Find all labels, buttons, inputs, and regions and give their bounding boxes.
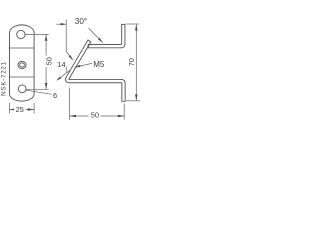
arrowhead dim50 left bottom <box>45 83 48 89</box>
dim 25: extension line left <box>9 103 11 114</box>
text mask dim 50 bottom <box>89 111 101 120</box>
arrowhead dim14 upper (to slant face) <box>69 55 73 60</box>
side view lower profile: slant tab, bottom run, mounting plate <box>66 40 126 101</box>
label M5: leader line <box>75 63 92 67</box>
arrowhead dim14 lower (away from slant face) <box>56 77 61 81</box>
svg-text:25: 25 <box>16 105 24 114</box>
svg-text:50: 50 <box>91 111 99 120</box>
arrowhead 30deg at reference line <box>61 23 67 25</box>
svg-text:70: 70 <box>127 58 136 66</box>
text mask dim 25 <box>14 105 25 114</box>
bend line lower <box>10 76 35 78</box>
dim 50 bottom: dimension line <box>70 115 125 117</box>
svg-text:30°: 30° <box>75 17 87 26</box>
dim 70: dimension line <box>135 24 137 101</box>
leader for hole dia 6 <box>26 90 51 94</box>
dim 25: extension line right <box>33 103 35 114</box>
arrowhead dim70 bottom <box>135 94 138 100</box>
dim 50 left: extension line from bottom hole <box>25 88 48 90</box>
dim 30deg: vertical reference line <box>65 19 67 51</box>
arrowhead dim50 left top <box>45 35 48 41</box>
dim 25: dimension line <box>10 109 35 111</box>
dim 70: extension line bottom <box>126 100 140 102</box>
dim 50 bottom: extension line left <box>69 88 71 120</box>
side view upper profile: top run and hook <box>88 24 125 47</box>
arrowhead dim70 top <box>135 24 138 30</box>
arrowhead M5 leader <box>75 65 81 67</box>
text mask dim 50 left <box>45 56 54 67</box>
dim 50 left: extension line from top hole <box>25 34 48 36</box>
bend line upper <box>10 47 35 49</box>
dim 50 left: dimension line <box>45 35 47 90</box>
svg-text:6: 6 <box>53 91 57 100</box>
dim 30deg: vertical reference line lower segment <box>65 67 67 73</box>
svg-text:NSK-7221: NSK-7221 <box>1 61 8 96</box>
hole middle M5 tapped <box>18 62 26 69</box>
svg-text:50: 50 <box>45 57 54 65</box>
dim 30deg: pointer line to slant <box>89 28 103 43</box>
dim 50 bottom: extension line right <box>123 104 125 120</box>
dim 14: lower leader from slant face <box>58 70 70 80</box>
arrowhead dim25 right <box>28 108 34 111</box>
dim 30deg: left arrow tail <box>56 23 66 25</box>
hole bottom <box>18 85 26 93</box>
svg-text:14: 14 <box>57 60 65 69</box>
arrowhead 30deg pointer <box>98 38 103 43</box>
arrowhead dim50 bottom left <box>70 115 76 118</box>
arrowhead dim25 left <box>10 108 16 111</box>
dim 14: kinked leader to slant face <box>66 52 73 61</box>
svg-text:M5: M5 <box>93 60 105 69</box>
dim 70: extension line top <box>126 23 139 25</box>
front view plate outline <box>10 25 35 101</box>
text mask dim 70 <box>127 56 135 69</box>
hole top <box>17 30 25 38</box>
arrowhead dim50 bottom right <box>118 115 124 118</box>
